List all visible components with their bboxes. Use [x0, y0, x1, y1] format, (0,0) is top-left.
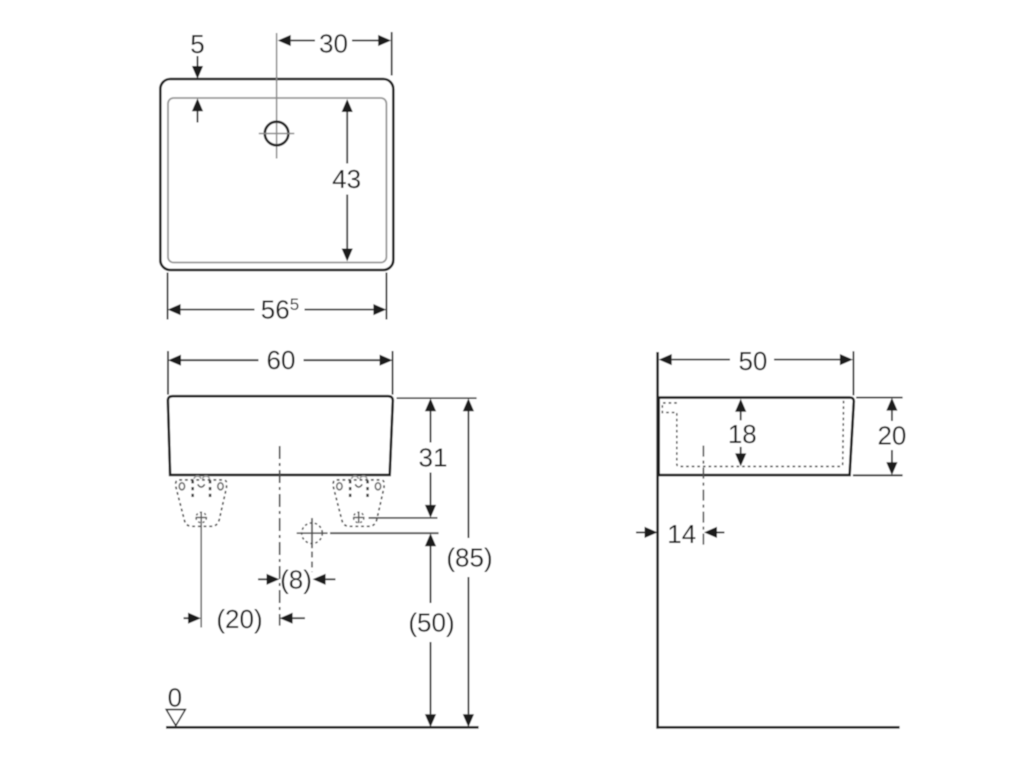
right mounting bracket [333, 476, 384, 526]
dim 56.5 extension lines [167, 273, 169, 320]
dim 60 line [168, 355, 181, 366]
dim 5 arrow up [192, 98, 203, 111]
wall line [656, 352, 659, 729]
svg-text:0: 0 [168, 683, 182, 713]
svg-text:(20): (20) [216, 604, 262, 634]
center axis line [279, 446, 281, 626]
dim 30 line [291, 40, 315, 42]
dim 20 reference lines [856, 397, 902, 399]
dim 20 arrow up [886, 398, 897, 411]
dim 43 arrow down [346, 195, 348, 249]
left bracket bolt axis line [200, 522, 202, 628]
svg-text:(8): (8) [280, 564, 312, 594]
svg-text:14: 14 [667, 519, 696, 549]
dim 31 arrow up [425, 398, 436, 411]
dim 60 extension lines [167, 351, 169, 395]
dim 43 arrow up [342, 99, 353, 112]
tap hole cross line [259, 133, 295, 135]
dim (20) arrow right [184, 617, 189, 619]
basin top reference line [397, 397, 477, 399]
drain axis line (side) [702, 446, 704, 546]
svg-text:5: 5 [190, 29, 204, 59]
svg-text:30: 30 [319, 29, 348, 59]
svg-text:60: 60 [267, 345, 296, 375]
dim (85) arrow up [463, 398, 474, 411]
dim 18 arrow down [740, 447, 742, 454]
dim 50 extension line [852, 351, 854, 395]
basin outer rim (top view) [160, 79, 393, 270]
drain hole cross [297, 532, 328, 534]
svg-text:18: 18 [728, 419, 757, 449]
drain hole circle (front) [302, 523, 323, 544]
svg-text:(50): (50) [408, 608, 454, 638]
datum triangle [166, 710, 185, 726]
dim 14 arrow left [704, 527, 717, 538]
dim 18 arrow up [735, 399, 746, 412]
hidden bowl contour (dotted) [662, 400, 843, 467]
dim (8) arrow left [313, 574, 326, 585]
svg-text:(85): (85) [446, 543, 492, 573]
dim (20) arrow left [280, 613, 293, 624]
svg-text:20: 20 [877, 421, 906, 451]
dim (50) arrow up [425, 533, 436, 546]
drain reference line to dim 50 [330, 532, 439, 534]
svg-text:50: 50 [738, 346, 767, 376]
svg-text:43: 43 [332, 164, 361, 194]
dim (8) arrow right [258, 578, 267, 580]
dim (50) arrow down [430, 642, 432, 714]
floor line (side) [656, 726, 899, 729]
basin body (front view) [168, 396, 393, 475]
drain axis dashes [311, 552, 313, 573]
basin body (side view) [659, 398, 854, 476]
dim 5 arrow down [197, 56, 199, 67]
floor baseline (front) [166, 726, 479, 729]
dim 31 arrow down [430, 473, 432, 505]
right bracket reference line to dim 31 [369, 517, 438, 519]
dim 50 line [659, 354, 672, 365]
dim 56.5 line [168, 304, 181, 315]
left mounting bracket [176, 476, 227, 526]
tap hole circle [265, 122, 289, 146]
dim 20 arrow down [891, 450, 893, 463]
faucet centerline [276, 33, 278, 159]
svg-text:31: 31 [419, 443, 448, 473]
dim (85) arrow down [467, 577, 469, 714]
dim 14 arrow right [636, 531, 645, 533]
dim 30 extension line [391, 32, 393, 76]
basin inner bowl edge (top view) [168, 98, 386, 263]
